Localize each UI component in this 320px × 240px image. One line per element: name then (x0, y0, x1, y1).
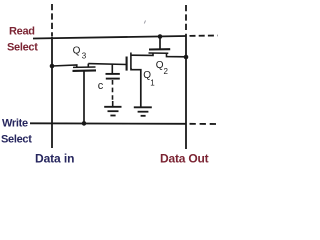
svg-text:Write: Write (2, 117, 28, 129)
svg-text:Data in: Data in (35, 151, 74, 165)
wire: Read Select line (33, 36, 186, 39)
svg-text:Data Out: Data Out (160, 152, 209, 166)
C bottom plate (106, 78, 120, 80)
stray scan mark (144, 21, 145, 24)
Q3 drain lead stub (87, 64, 89, 68)
transistor Q2 (read access) (149, 37, 187, 57)
Q2 drain stub and wire to data-out (167, 53, 187, 57)
ground (below Q1 source) (134, 107, 152, 116)
Q3 gate bar (73, 69, 97, 72)
transistor Q3 (write access) (52, 64, 96, 124)
Q3 gate lead to write line (83, 71, 85, 123)
Q1 source lead to ground (131, 68, 141, 107)
Q2 gate lead from read line (159, 37, 161, 50)
Q1 drain wire to Q2 source stub (131, 53, 153, 56)
wire: Data in bit line dashed top (51, 4, 53, 36)
node: junction Q2 gate / Read line (158, 34, 163, 39)
svg-text:1: 1 (150, 78, 155, 87)
node: junction Q3 gate / Write line (82, 121, 87, 126)
wire: Data in bit line (51, 37, 53, 149)
svg-text:2: 2 (164, 67, 169, 76)
svg-text:Select: Select (7, 41, 38, 53)
capacitor C (106, 64, 120, 106)
C dashed lead to ground (112, 80, 114, 101)
C top lead (111, 64, 113, 73)
wire: storage node (Q3 drain to C to Q1 gate) (88, 63, 126, 66)
label Write Select (1, 117, 32, 145)
wire: Write Select line (30, 122, 186, 125)
wire: Data out bit line dashed top (185, 5, 187, 34)
C top plate (106, 73, 120, 75)
wire: Data out bit line (185, 34, 187, 149)
Q3 source lead (52, 65, 77, 68)
node: junction Data-in / Q3 source (50, 64, 55, 69)
svg-text:c: c (98, 80, 104, 92)
node: junction Q2 drain / Data-out (184, 55, 189, 60)
Q1 channel bar (130, 53, 132, 69)
wire: Write Select dashed continuation (190, 123, 218, 125)
Q2 channel bar (149, 52, 169, 54)
label Read Select (7, 25, 38, 53)
svg-text:Read: Read (9, 25, 35, 37)
Q3 channel bar (73, 66, 96, 68)
transistor Q1 (storage) (127, 53, 153, 107)
wire: Read Select dashed continuation (190, 35, 218, 37)
Q2 gate bar (149, 48, 170, 50)
svg-text:3: 3 (82, 52, 87, 61)
Q1 gate bar (126, 57, 128, 71)
svg-text:Select: Select (1, 133, 32, 145)
svg-text:Q: Q (73, 45, 81, 56)
ground (below capacitor) (104, 107, 121, 116)
